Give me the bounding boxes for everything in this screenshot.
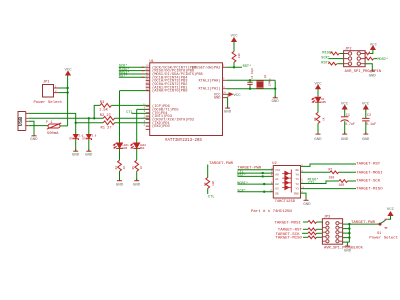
LED D4 power — [312, 97, 326, 112]
junction D+ corner — [75, 122, 77, 124]
IC U1 ATTINY2313 — [150, 60, 223, 143]
svg-text:(RXD)PD0: (RXD)PD0 — [152, 124, 170, 129]
svg-text:GND: GND — [369, 74, 377, 78]
ground C1 — [341, 132, 349, 142]
fuse F1 — [46, 121, 61, 136]
svg-text:C2: C2 — [367, 114, 371, 118]
svg-text:GND: GND — [214, 97, 221, 101]
svg-text:SCK*: SCK* — [321, 55, 330, 60]
ground under D1 — [72, 149, 80, 157]
svg-text:OE: OE — [275, 192, 279, 195]
svg-text:500mA: 500mA — [47, 132, 59, 136]
node MISO* into JP2 — [322, 50, 343, 55]
svg-text:CTL: CTL — [208, 196, 214, 200]
switch S1 power select — [369, 219, 398, 240]
node TARGET-SCK into JP3 — [276, 232, 323, 237]
wire JP2 gnd — [365, 64, 372, 71]
svg-text:Power Select: Power Select — [34, 100, 63, 105]
svg-text:TARGET-RST: TARGET-RST — [356, 163, 381, 167]
ground JP3 — [344, 244, 352, 254]
resistor R3 1.5K — [93, 101, 150, 119]
svg-text:C1: C1 — [346, 114, 350, 118]
svg-text:Y1: Y1 — [295, 178, 299, 181]
node RST* into JP2 — [321, 61, 343, 66]
resistor R1 27 — [101, 121, 150, 130]
svg-text:TARGET-PWR: TARGET-PWR — [351, 221, 376, 225]
node MOSI* out JP2 — [365, 57, 388, 62]
svg-text:VCC: VCC — [275, 169, 280, 172]
wire U2 gnd — [301, 193, 307, 200]
svg-text:R1 27: R1 27 — [101, 126, 112, 130]
junction D2 — [88, 117, 90, 119]
ground under USB — [30, 134, 38, 142]
LED LED1 — [114, 143, 130, 160]
svg-text:Y0: Y0 — [295, 174, 299, 177]
svg-text:3.6: 3.6 — [92, 135, 97, 138]
node SCK* into U2 — [237, 189, 273, 194]
svg-text:XTAL2(PA0): XTAL2(PA0) — [198, 78, 220, 83]
svg-text:100: 100 — [329, 175, 335, 179]
wire USB D- — [29, 117, 103, 119]
wire USB D+ (jog down) — [29, 113, 76, 122]
svg-text:10K: 10K — [238, 53, 241, 58]
VCC at JP2 — [365, 43, 378, 54]
VCC at C2 — [362, 103, 370, 119]
node TARGET-RST into JP3 — [278, 228, 323, 233]
wire XTAL2 — [227, 79, 276, 81]
capacitor C4 — [247, 67, 254, 90]
node TARGET-PWR wire into U2 — [237, 167, 273, 171]
IC U1 pin names PB — [152, 65, 203, 93]
wire TARGET-SCK out with R11 — [301, 181, 340, 184]
capacitor C1 polarized — [341, 114, 355, 133]
svg-text:1K: 1K — [123, 166, 126, 170]
svg-text:C4 18pF: C4 18pF — [251, 67, 254, 79]
wire GND pin U1 — [227, 98, 228, 108]
wire TARGET-MISO out — [301, 188, 357, 190]
svg-text:GRN: GRN — [123, 147, 128, 150]
VCC at C1 — [341, 103, 349, 117]
svg-text:A2: A2 — [275, 183, 279, 186]
ground power led — [314, 132, 322, 142]
resistor R8 — [314, 113, 325, 134]
svg-text:0.1uF: 0.1uF — [366, 123, 376, 127]
resistor R5 — [132, 160, 143, 180]
svg-text:100: 100 — [339, 183, 345, 187]
svg-text:GND: GND — [303, 203, 311, 207]
svg-text:GRN: GRN — [321, 101, 326, 104]
svg-text:TARGET-MOSI: TARGET-MOSI — [275, 221, 301, 225]
wire JP3 right gnd collector — [343, 224, 380, 246]
svg-text:OE: OE — [295, 169, 299, 172]
connector JP2 — [344, 48, 381, 74]
svg-text:1K: 1K — [140, 166, 143, 170]
svg-text:S1: S1 — [377, 232, 381, 236]
svg-text:12: 12 — [146, 88, 150, 91]
VCC symbol reset pullup — [231, 34, 239, 41]
svg-text:GND: GND — [30, 138, 38, 142]
svg-text:(AIN0/PCINT0)PB0: (AIN0/PCINT0)PB0 — [152, 89, 187, 94]
node SCK* label — [119, 64, 146, 69]
IC U2 74HC125 — [272, 162, 300, 204]
VCC at S1 — [387, 208, 395, 219]
IC U1 left pins lower group — [143, 103, 150, 129]
svg-text:VCC: VCC — [387, 208, 395, 212]
svg-text:R9: R9 — [204, 182, 207, 186]
wire crystal gnd rail — [274, 80, 276, 97]
svg-text:A3: A3 — [275, 188, 279, 191]
svg-text:GND: GND — [272, 100, 280, 104]
wire USB VBUS to fuse — [29, 125, 48, 127]
svg-text:VCC: VCC — [234, 94, 242, 98]
svg-text:R8: R8 — [314, 117, 317, 121]
wire TARGET-RST out — [301, 164, 357, 166]
svg-text:1.5K: 1.5K — [99, 109, 109, 113]
IC U2 buffer gates — [282, 170, 291, 193]
zener D1 — [70, 123, 84, 151]
svg-text:GND: GND — [116, 183, 124, 187]
wire USB GND stub — [29, 121, 34, 135]
wire R6 to RESET — [227, 62, 243, 67]
wire VCC/VBUS vertical — [67, 75, 69, 126]
USB connector X1 — [18, 112, 29, 131]
svg-text:MOSI*: MOSI* — [377, 57, 388, 62]
svg-text:74HCT125D: 74HCT125D — [275, 200, 296, 204]
svg-text:CTL: CTL — [308, 182, 314, 186]
node RST* into U2 — [237, 173, 273, 178]
wire JP1 pin1 — [59, 87, 68, 89]
svg-text:SCK*: SCK* — [237, 189, 246, 194]
svg-text:GND: GND — [362, 138, 370, 142]
svg-text:GND: GND — [294, 192, 299, 195]
svg-text:A0: A0 — [275, 174, 279, 177]
svg-text:12MHz: 12MHz — [269, 78, 272, 86]
IC U1 left pins top group — [146, 65, 150, 91]
svg-text:TARGET-MOSI: TARGET-MOSI — [356, 171, 382, 175]
IC U1 pin names PD — [152, 104, 194, 129]
VCC power led column — [315, 83, 323, 97]
svg-text:TARGET-PWR: TARGET-PWR — [209, 162, 234, 166]
svg-text:XTAL1(PA1): XTAL1(PA1) — [198, 87, 220, 92]
svg-text:Q1: Q1 — [264, 74, 267, 78]
ground under R4 — [116, 179, 124, 188]
ground under U1 — [224, 106, 232, 114]
svg-text:Y3: Y3 — [295, 188, 299, 191]
node CTL into U2 — [237, 171, 273, 175]
wire JP1 pin2 — [59, 92, 68, 94]
wire LED1 net from PB — [120, 91, 150, 143]
node TARGET-MOSI into JP3 — [275, 221, 323, 226]
IC U1 right pin names — [192, 65, 222, 100]
svg-text:Y2: Y2 — [295, 183, 299, 186]
svg-text:A1: A1 — [275, 178, 279, 181]
svg-text:AVR_SPI_PRG_6PIN: AVR_SPI_PRG_6PIN — [345, 70, 381, 74]
capacitor C2 — [362, 114, 376, 133]
svg-text:RST*: RST* — [243, 64, 252, 69]
ground under D2 — [85, 149, 93, 157]
svg-text:TARGET-MISO: TARGET-MISO — [276, 237, 303, 241]
svg-text:RST*: RST* — [119, 74, 128, 79]
svg-text:#ATTINY2313-20S: #ATTINY2313-20S — [165, 139, 202, 143]
node SCK* into JP2 — [321, 55, 343, 60]
svg-text:GND: GND — [344, 250, 352, 254]
junction JP1 pins — [66, 87, 68, 89]
VCC symbol top-left — [65, 69, 73, 76]
node MOSI* into U2 — [237, 181, 273, 186]
wire TARGET-MOSI out with R10 — [301, 171, 331, 173]
IC U1 right pins — [223, 65, 231, 98]
wire LED2 net from PD — [137, 109, 150, 142]
IC U2 pin names — [275, 169, 280, 196]
svg-text:R5: R5 — [132, 166, 135, 170]
svg-text:GND: GND — [224, 110, 232, 114]
wire VCC to R6 — [233, 42, 235, 52]
ground JP2 — [369, 69, 377, 78]
svg-text:Part # s 74HC125N: Part # s 74HC125N — [251, 209, 292, 214]
ground C2 — [362, 132, 370, 142]
svg-text:10K: 10K — [212, 181, 215, 186]
ground crystal — [272, 96, 280, 104]
svg-text:1K: 1K — [322, 117, 325, 121]
svg-text:(RESET/dW)PA2: (RESET/dW)PA2 — [192, 65, 221, 70]
crystal Q1 — [256, 74, 271, 88]
node CTL stub at PD — [126, 111, 149, 115]
svg-text:D1: D1 — [70, 136, 73, 140]
svg-text:GND: GND — [314, 138, 322, 142]
connector JP1 — [34, 81, 63, 105]
resistor R2 27 — [100, 114, 150, 120]
svg-text:D2: D2 — [83, 136, 86, 140]
node MOSI* label — [119, 70, 146, 75]
zener D2 — [83, 118, 97, 151]
wire XTAL1 — [227, 88, 276, 90]
resistor R7 pullup — [204, 178, 215, 195]
svg-text:USB: USB — [18, 117, 24, 126]
svg-text:TARGET-MISO: TARGET-MISO — [356, 188, 383, 192]
svg-text:R7: R7 — [329, 167, 333, 171]
ground U2 — [303, 198, 311, 207]
svg-text:TARGET-SCK: TARGET-SCK — [356, 180, 381, 184]
node RST* label — [119, 74, 146, 79]
node TARGET-MISO into JP3 — [276, 236, 323, 241]
node MISO* label — [119, 67, 146, 72]
svg-text:MOSI*: MOSI* — [237, 181, 248, 186]
LED LED2 — [131, 143, 147, 160]
connector JP3 — [322, 215, 363, 250]
resistor R6 10K — [232, 51, 241, 62]
svg-text:GND: GND — [341, 138, 349, 142]
svg-text:GND: GND — [72, 153, 80, 157]
svg-text:R4: R4 — [115, 166, 118, 170]
node TARGET-PWR pullup — [208, 162, 234, 178]
resistor R4 — [115, 160, 126, 180]
svg-text:RST*: RST* — [237, 173, 246, 178]
svg-text:RED: RED — [140, 147, 145, 150]
svg-text:Power Select: Power Select — [369, 235, 398, 240]
svg-text:GND: GND — [85, 153, 93, 157]
VCC pin arrow U1 — [227, 93, 242, 98]
svg-text:4.7uF: 4.7uF — [345, 123, 355, 127]
ground under R5 — [133, 179, 141, 188]
svg-text:GND: GND — [133, 183, 141, 187]
wire D+ row to R1 — [76, 122, 104, 124]
wire fuse to VCC rail — [60, 125, 68, 127]
